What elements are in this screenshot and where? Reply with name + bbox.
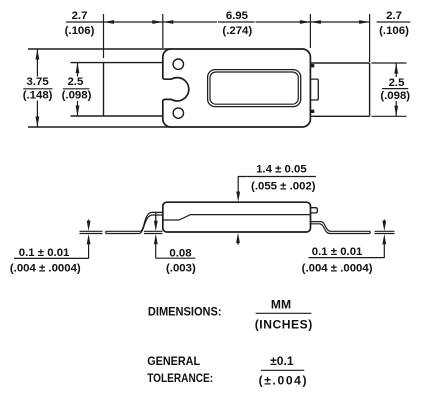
svg-text:(±.004): (±.004) bbox=[259, 373, 307, 387]
legend: GENERAL TOLERANCE rows bbox=[147, 354, 306, 387]
svg-text:(.003): (.003) bbox=[166, 263, 196, 275]
dimension 0.1 left: label bbox=[10, 247, 81, 274]
svg-text:(.098): (.098) bbox=[62, 90, 92, 102]
svg-text:2.7: 2.7 bbox=[72, 10, 88, 22]
svg-text:1.4 ± 0.05: 1.4 ± 0.05 bbox=[256, 164, 307, 176]
top view: right side tab bbox=[310, 79, 318, 100]
dimension 0.1 right: label bbox=[302, 246, 373, 274]
top view: weld mark upper bbox=[311, 64, 314, 67]
top view: upper mounting hole bbox=[173, 59, 183, 69]
legend: DIMENSIONS row bbox=[148, 298, 312, 332]
svg-text:TOLERANCE:: TOLERANCE: bbox=[147, 371, 213, 385]
svg-text:3.75: 3.75 bbox=[27, 76, 50, 88]
top view: weld mark lower bbox=[311, 110, 314, 113]
top view: left lead narrow section (2.5 wide) with step at x=103.5 bbox=[71, 63, 164, 116]
dimension extension lines above top view bbox=[104, 14, 370, 62]
dimension 0.1 left: extension lines bbox=[80, 231, 103, 233]
svg-text:(.274): (.274) bbox=[222, 25, 252, 37]
svg-text:2.7: 2.7 bbox=[386, 10, 402, 22]
dimension 2.5 left: arrows bbox=[77, 63, 79, 77]
svg-text:2.5: 2.5 bbox=[389, 77, 405, 89]
dimension 2.7 right: line and arrows bbox=[310, 21, 369, 23]
dimension 2.5 right: arrows bbox=[395, 63, 397, 77]
dimension 0.1 left: arrows bbox=[88, 220, 90, 221]
dimension 2.7 left: line and arrows bbox=[104, 21, 163, 23]
svg-text:0.08: 0.08 bbox=[169, 247, 191, 259]
svg-text:(.106): (.106) bbox=[379, 25, 409, 37]
svg-text:0.1 ± 0.01: 0.1 ± 0.01 bbox=[312, 246, 363, 258]
dimension 0.1 right: arrows bbox=[383, 220, 385, 221]
svg-text:DIMENSIONS:: DIMENSIONS: bbox=[148, 304, 222, 318]
svg-text:(.004 ± .0004): (.004 ± .0004) bbox=[302, 262, 373, 274]
dimension 6.95: label bbox=[222, 10, 252, 37]
svg-text:0.1 ± 0.01: 0.1 ± 0.01 bbox=[19, 247, 70, 259]
top view: lower mounting hole bbox=[173, 108, 183, 118]
dimension 2.7 left: label bbox=[65, 10, 95, 37]
side view: right side tab bbox=[311, 208, 318, 213]
top view: package body outline with left notch bbox=[163, 49, 311, 127]
top view: left lead outer lines (3.75 wide) bbox=[28, 49, 171, 127]
svg-text:(INCHES): (INCHES) bbox=[255, 317, 313, 331]
dimension 0.08: label bbox=[166, 247, 196, 274]
side view: package body bbox=[163, 202, 311, 232]
dimension 1.4: label and leader bbox=[251, 164, 316, 193]
dimension 2.5 right: extension lines bbox=[372, 63, 407, 116]
svg-text:(.148): (.148) bbox=[23, 90, 53, 102]
top view: right lead rectangle (2.5 wide) bbox=[310, 63, 369, 116]
dimension 2.5 left: label bbox=[62, 76, 92, 102]
dimension 0.1 right: extension lines bbox=[375, 231, 395, 233]
dimension 2.7 right: label bbox=[379, 10, 409, 37]
svg-text:2.5: 2.5 bbox=[67, 76, 83, 88]
svg-text:6.95: 6.95 bbox=[226, 10, 249, 22]
svg-text:(.098): (.098) bbox=[380, 90, 410, 102]
svg-text:(.106): (.106) bbox=[65, 25, 95, 37]
dimension 3.75: arrows bbox=[36, 49, 38, 77]
side view: left lead bbox=[106, 212, 163, 233]
top view: window inner outline bbox=[210, 72, 298, 104]
dimension 3.75: label bbox=[23, 76, 53, 102]
dimension 0.08: arrows bbox=[155, 213, 157, 221]
side view: right lead bbox=[311, 222, 371, 234]
svg-text:(.055 ± .002): (.055 ± .002) bbox=[251, 180, 316, 192]
top view: window outer outline bbox=[208, 70, 301, 107]
svg-text:MM: MM bbox=[271, 298, 291, 312]
side view: internal lead line bbox=[163, 215, 310, 220]
svg-text:(.004 ± .0004): (.004 ± .0004) bbox=[10, 262, 81, 274]
svg-text:GENERAL: GENERAL bbox=[147, 354, 200, 368]
svg-text:±0.1: ±0.1 bbox=[270, 354, 294, 368]
dimension 6.95: line and arrows bbox=[163, 21, 311, 23]
dimension 2.5 right: label bbox=[380, 77, 410, 102]
